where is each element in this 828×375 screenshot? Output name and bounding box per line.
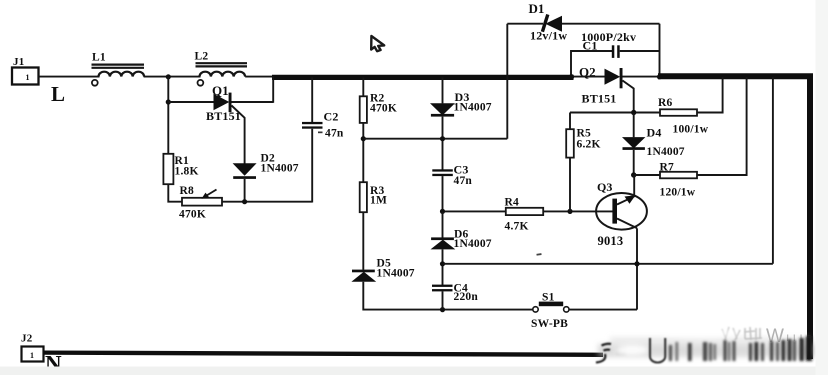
diode D6 (1N4007) [431,211,492,250]
svg-text:1.8K: 1.8K [175,166,199,178]
inductor L2 [195,51,248,86]
thyristor Q1 (BT151) [206,83,241,123]
svg-text:6.2K: 6.2K [577,139,601,151]
switch S1 (SW-PB) [531,292,569,331]
junction dot thick bus / C1 left [569,74,574,79]
capacitor C2 [302,77,344,202]
wire Q2 cathode to junction [623,76,661,78]
capacitor C1 (1000P/2kv) [571,30,660,76]
thyristor Q2 (BT151) [573,65,623,106]
junction dot R2/rail [361,136,366,141]
wire emitter rail [443,263,773,265]
svg-text:1M: 1M [370,195,387,207]
watermark smear band [598,337,816,357]
wire L1 to L2 [144,76,201,78]
wire R4 to Q3 base [543,210,612,212]
transistor Q3 (9013) [596,175,647,248]
wire N bus (J2 to watermark) [44,353,604,355]
connector J2 [21,333,44,362]
wire node A down to R1 [167,77,169,154]
watermark U letterform (over smudge) [650,338,665,363]
svg-text:1: 1 [30,351,34,360]
diode D4 (1N4007) [622,113,685,159]
resistor R1 [163,154,198,184]
resistor R2 [360,93,397,123]
svg-text:R6: R6 [658,97,673,109]
wire R4 rail [443,210,507,212]
junction dot D1/C1 right riser [657,74,662,79]
svg-text:L: L [51,82,65,106]
svg-text:W: W [766,326,784,347]
svg-text:1N4007: 1N4007 [261,163,299,175]
wire thick cathode bus to top-right corner [658,76,810,359]
svg-text:J2: J2 [21,333,33,345]
watermark dark streaks [616,336,812,361]
mouse cursor [371,36,384,51]
capacitor C4 [432,283,478,310]
svg-text:1N4007: 1N4007 [454,238,492,250]
svg-text:D4: D4 [647,126,662,140]
svg-text:BT151: BT151 [582,92,617,106]
watermark ghost text (activate) [722,327,762,340]
wire emitter rail right riser [772,77,774,264]
junction dot D4/R7 [631,172,636,177]
wire R2 top column [362,77,364,96]
svg-text:SW-PB: SW-PB [531,318,568,330]
wire R5 bottom to base rail [569,158,571,212]
wire R3 column / resistor R3 [360,182,387,212]
svg-text:1N4007: 1N4007 [647,146,685,158]
svg-text:C2: C2 [324,110,339,124]
page right gray band [816,0,828,375]
junction dot D2/rail [242,199,247,204]
wire D3 to rail [442,117,444,170]
svg-text:R4: R4 [505,197,520,209]
node A junction dot (between L1 and L2) [166,74,171,79]
junction dot emitter riser/rail [634,261,639,266]
wire thick top bus (L2 output to Q2 anode) [272,75,574,80]
diode D3 (1N4007) [430,90,492,117]
inductor L1 [92,52,145,86]
svg-text:220n: 220n [454,291,479,303]
scan speck 2 [318,132,323,134]
resistor R4 [505,197,544,233]
scan speck [536,253,541,255]
watermark squiggle at N-bus end [596,344,611,363]
junction dot D3/rail [440,136,445,141]
svg-text:J1: J1 [13,56,24,68]
svg-text:Q3: Q3 [597,180,612,194]
junction dot D6/emitter rail [440,261,445,266]
svg-text:100/1w: 100/1w [673,124,709,136]
wire J1 to L1 [39,76,100,78]
svg-text:470K: 470K [179,209,206,221]
capacitor C3 [432,163,472,212]
wire Q2 gate [623,81,634,113]
wire Q1 anode branch [168,101,213,103]
svg-text:47n: 47n [325,128,344,140]
svg-text:120/1w: 120/1w [660,187,696,199]
svg-text:1N4007: 1N4007 [454,102,492,114]
svg-text:470K: 470K [370,103,397,115]
wire Q1 gate [232,106,245,164]
resistor R6 (100/1w) [658,77,723,136]
wire D5 to bottom rail [363,282,533,310]
potentiometer R8 [179,185,222,221]
svg-text:1: 1 [26,73,30,82]
svg-text:L2: L2 [195,51,209,63]
svg-text:12v/1w: 12v/1w [530,29,567,43]
svg-text:4.7K: 4.7K [505,221,529,233]
diode D5 (1N4007) [351,258,414,282]
svg-text:9013: 9013 [598,234,624,248]
wire Q1 cathode to bus riser [232,101,274,103]
junction dot gate/D4 [631,110,636,115]
svg-text:D1: D1 [529,1,545,16]
watermark W mark [766,326,803,347]
wire D1 right riser [659,24,661,77]
diode D2 (1N4007) [233,153,299,179]
junction dot R5 bottom [567,209,572,214]
wire D3 top column [442,77,444,103]
node junction dot Q1 branch [166,99,171,104]
wire R2 bottom to rail [362,123,364,182]
wire R3 to D5 [362,212,364,270]
wire R1 to bottom rail [168,184,312,202]
wire gate rail (R2 to D1 riser) [363,138,507,140]
junction dot C4 bottom [440,307,445,312]
connector J1 [12,56,39,85]
wire L2 to thick bus [245,76,274,78]
resistor R7 (120/1w) [634,77,747,199]
wire D4 to R7 rail [633,150,635,175]
resistor R5 [566,113,600,158]
wire emitter riser [636,228,638,309]
wire D1 left riser (crosses bus, to gate rail) [506,24,508,139]
svg-text:L1: L1 [92,52,106,64]
svg-text:BT151: BT151 [206,109,241,123]
wire S1 to emitter riser [569,309,637,311]
wire gate row rail (R5 to R6) [570,112,660,114]
wire D2 cathode to bottom rail [244,179,246,202]
watermark white smudges [615,329,740,356]
page bottom gray band [0,367,828,375]
svg-text:R8: R8 [180,185,195,197]
svg-text:1N4007: 1N4007 [377,268,415,280]
zener D1 (12v/1w) [507,1,659,43]
svg-text:47n: 47n [454,175,473,187]
junction dot C3/R4/D6 [440,209,445,214]
wire riser to thick bus [272,77,274,103]
wire D6 to emitter rail [442,249,444,285]
